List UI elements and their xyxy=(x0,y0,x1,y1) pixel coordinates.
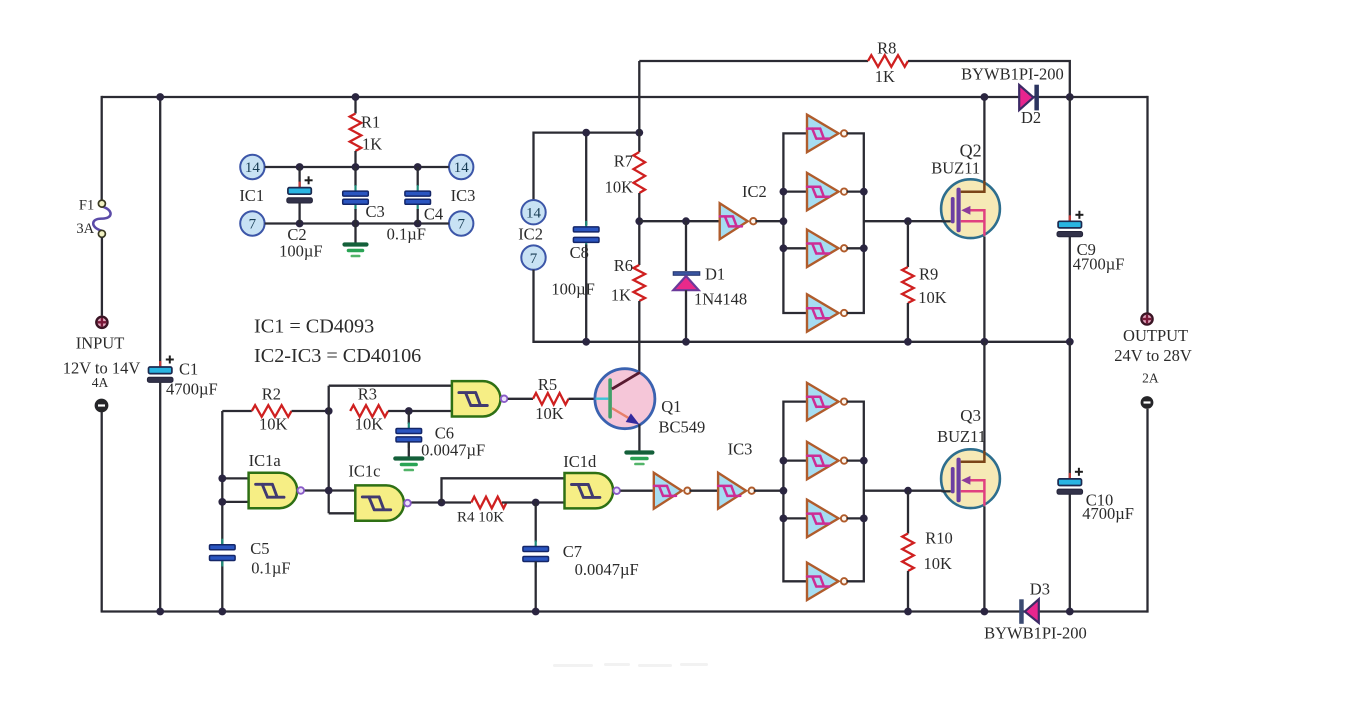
node IC2 input rail 2 xyxy=(780,188,788,196)
pin 14 IC1 xyxy=(240,155,264,179)
node C9 top rail xyxy=(1066,93,1074,101)
wire ground stem under C3 xyxy=(354,224,356,244)
wire pin14 IC2 riser xyxy=(534,133,640,200)
svg-text:2A: 2A xyxy=(1142,371,1159,386)
terminal INPUT plus xyxy=(96,317,107,328)
wire R2 left lead xyxy=(222,410,252,412)
pin 7 IC2 xyxy=(521,245,545,269)
op-amp IC2 bank inverter 4 xyxy=(807,294,839,331)
svg-text:OUTPUT: OUTPUT xyxy=(1123,326,1188,345)
wire IC3 bank to Q3 gate xyxy=(864,490,943,492)
svg-text:1N4148: 1N4148 xyxy=(694,289,747,308)
node IC3 output rail 3 xyxy=(860,515,868,523)
svg-text:INPUT: INPUT xyxy=(76,333,125,352)
wire R2 right lead xyxy=(292,410,329,412)
wire IC2 bank output stub 2 xyxy=(847,190,864,192)
wire IC1a input stub lower xyxy=(222,501,248,503)
svg-text:10K: 10K xyxy=(918,288,947,307)
node C4 bottom xyxy=(414,220,422,228)
wire IC3 bank output rail xyxy=(847,402,864,582)
node C3 bottom xyxy=(352,220,360,228)
wire R3 right lead xyxy=(388,410,452,412)
svg-text:R6: R6 xyxy=(614,256,633,275)
op-amp IC3 bank inverter 3 xyxy=(807,500,839,537)
node Q2 source mid rail xyxy=(981,338,989,346)
svg-text:C3: C3 xyxy=(366,202,385,221)
wire IC1c lower input corner xyxy=(329,512,356,514)
op-amp IC3 driver inverter A xyxy=(654,473,682,509)
node IC2 input rail 3 xyxy=(780,244,788,252)
svg-text:IC2: IC2 xyxy=(518,225,543,244)
wire C2 top lead xyxy=(298,167,300,188)
svg-text:3A: 3A xyxy=(76,221,94,237)
wire R4 right lead xyxy=(502,501,565,503)
svg-text:IC3: IC3 xyxy=(728,440,753,459)
pin 14 IC3 xyxy=(449,155,473,179)
ground under C3 xyxy=(345,242,367,246)
wire C6 bottom lead xyxy=(408,442,410,457)
svg-text:1K: 1K xyxy=(611,285,631,304)
capacitor C8 xyxy=(585,221,587,228)
wire Q2 drain to rail xyxy=(983,97,985,181)
wire IC1c output xyxy=(412,501,472,503)
wire Q2 source to mid rail xyxy=(983,236,985,341)
svg-text:IC1a: IC1a xyxy=(249,451,282,470)
wire oscillator left vertical xyxy=(221,411,223,545)
svg-text:C8: C8 xyxy=(570,243,589,262)
node IC1c output junction xyxy=(438,499,446,507)
wire R8 right lead xyxy=(908,61,1070,97)
wire left rail upper segment xyxy=(101,96,103,200)
node IC3 output rail 2 xyxy=(860,457,868,465)
wire feedback to IC1d xyxy=(442,478,565,502)
node R9 top xyxy=(904,217,912,225)
svg-text:IC3: IC3 xyxy=(451,186,476,205)
svg-text:4700µF: 4700µF xyxy=(1073,254,1125,273)
wire Q1 emitter to ground xyxy=(638,424,640,450)
svg-text:0.1µF: 0.1µF xyxy=(251,559,290,578)
wire C4 bottom lead xyxy=(417,209,419,224)
svg-text:C1: C1 xyxy=(179,360,198,379)
capacitor C2 xyxy=(299,182,301,188)
wire output minus to bottom rail xyxy=(1146,409,1148,613)
wire C3 bottom lead xyxy=(354,209,356,224)
op-amp IC3 bank inverter 1 xyxy=(807,383,839,420)
op-amp IC2 driver inverter xyxy=(720,203,748,239)
resistor R4 xyxy=(471,497,506,509)
svg-text:R10: R10 xyxy=(925,528,953,547)
capacitor C6 xyxy=(408,423,410,430)
svg-text:D2: D2 xyxy=(1021,108,1041,127)
wire top supply rail xyxy=(102,96,1148,98)
svg-text:4700µF: 4700µF xyxy=(166,379,218,398)
wire R9 upper lead xyxy=(907,221,909,267)
node IC3 input rail 3 xyxy=(780,515,788,523)
node IC1a upper input xyxy=(218,475,226,483)
wire bottom ground rail xyxy=(101,610,1148,612)
nand gate IC1c xyxy=(355,485,404,520)
capacitor C5 xyxy=(221,539,223,546)
wire C9 bottom lead xyxy=(1069,237,1071,342)
resistor R6 xyxy=(634,265,646,301)
svg-text:R5: R5 xyxy=(538,375,557,394)
svg-text:0.0047µF: 0.0047µF xyxy=(421,440,485,459)
svg-text:R9: R9 xyxy=(919,265,938,284)
pin 7 IC1 xyxy=(240,211,264,235)
svg-text:1K: 1K xyxy=(875,67,895,86)
wire C10 bottom lead xyxy=(1069,495,1071,612)
svg-text:C5: C5 xyxy=(250,539,269,558)
wire between IC3 drivers xyxy=(689,490,718,492)
svg-text:1K: 1K xyxy=(362,134,382,153)
node D1 bottom xyxy=(682,338,690,346)
wire pin14 line xyxy=(265,166,449,168)
svg-text:R1: R1 xyxy=(361,113,380,132)
transistor Q3 xyxy=(941,449,1000,508)
wire C8 top lead xyxy=(585,133,587,225)
resistor R7 xyxy=(634,152,646,193)
resistor R5 xyxy=(533,393,569,405)
svg-text:100µF: 100µF xyxy=(279,242,322,261)
node C4 top xyxy=(414,163,422,171)
wire R5 left lead xyxy=(508,398,533,400)
wire C8 bottom lead xyxy=(585,245,587,342)
wire C2 bottom lead xyxy=(298,203,300,224)
node D1 top xyxy=(682,217,690,225)
transistor Q1 xyxy=(595,369,655,429)
wire fuse to input plus terminal xyxy=(101,237,103,315)
wire IC1b upper input xyxy=(329,385,452,387)
resistor R9 xyxy=(902,267,914,303)
wire IC1d output xyxy=(620,490,653,492)
capacitor C3 xyxy=(354,185,356,192)
capacitor C10 xyxy=(1069,473,1071,479)
op-amp IC2 bank inverter 3 xyxy=(807,230,839,267)
svg-text:R4 10K: R4 10K xyxy=(457,510,504,526)
wire C3 top lead xyxy=(354,167,356,186)
fuse F1 xyxy=(93,207,110,231)
svg-text:D3: D3 xyxy=(1030,579,1050,598)
diode D1 xyxy=(673,272,700,276)
wire Q3 drain to mid rail xyxy=(983,342,985,451)
svg-text:IC1d: IC1d xyxy=(563,452,597,471)
svg-text:R3: R3 xyxy=(358,385,377,404)
wire IC3 bank input rail xyxy=(783,402,807,582)
svg-text:BYWB1PI-200: BYWB1PI-200 xyxy=(984,624,1087,643)
svg-text:R7: R7 xyxy=(614,152,633,171)
wire IC1a output xyxy=(305,489,356,491)
resistor R8 xyxy=(868,55,908,67)
wire C7 top lead xyxy=(535,503,537,543)
node IC2 output rail 3 xyxy=(860,244,868,252)
ground under Q1 xyxy=(626,450,652,454)
svg-text:10K: 10K xyxy=(924,554,953,573)
wire C6 top lead xyxy=(408,411,410,424)
diode D3 xyxy=(1019,599,1024,624)
node C1 top rail xyxy=(156,93,164,101)
svg-text:0.1µF: 0.1µF xyxy=(387,224,426,243)
wire R10 upper lead xyxy=(907,491,909,534)
nand gate IC1d xyxy=(565,473,614,508)
svg-text:7: 7 xyxy=(249,217,257,233)
terminal OUTPUT plus xyxy=(1141,313,1152,324)
wire pin7 IC2 drop xyxy=(534,270,1070,342)
svg-text:C4: C4 xyxy=(424,205,443,224)
node C2 top xyxy=(296,163,304,171)
pin 14 IC2 xyxy=(521,200,545,224)
wire right rail upper segment xyxy=(1146,96,1148,313)
svg-text:D1: D1 xyxy=(705,264,725,283)
wire R6 to Q1 collector xyxy=(638,301,640,372)
node R2 R3 junction xyxy=(325,407,333,415)
svg-text:BYWB1PI-200: BYWB1PI-200 xyxy=(961,65,1064,84)
wire IC1a input stub upper xyxy=(222,477,248,479)
wire C7 bottom lead xyxy=(535,562,537,612)
terminal OUTPUT minus xyxy=(1141,396,1154,409)
wire IC3 driver out to bank xyxy=(754,490,784,492)
svg-text:7: 7 xyxy=(457,217,465,233)
wire IC3 bank output stub 2 xyxy=(847,459,864,461)
wire IC3 bank input stub 3 xyxy=(783,517,807,519)
svg-text:10K: 10K xyxy=(355,415,384,434)
wire R5 right lead xyxy=(569,398,597,400)
wire mid rail to C10 xyxy=(1069,342,1071,479)
op-amp IC3 driver inverter B xyxy=(718,473,746,509)
wire driver out to bank input rail xyxy=(755,220,783,222)
capacitor C4 xyxy=(417,185,419,192)
node C8 top xyxy=(582,129,590,137)
node C1 bottom rail xyxy=(156,608,164,616)
node mid rail right end xyxy=(1066,338,1074,346)
node R1 top rail xyxy=(352,93,360,101)
node R10 bottom rail xyxy=(904,608,912,616)
svg-text:IC1c: IC1c xyxy=(348,462,380,481)
op-amp IC2 bank inverter 1 xyxy=(807,115,839,152)
svg-text:F1: F1 xyxy=(79,198,94,214)
wire IC2 bank input stub 3 xyxy=(783,247,807,249)
wire IC2 bank output rail xyxy=(847,133,864,313)
node IC3 input rail 2 xyxy=(780,457,788,465)
wire IC3 bank output stub 3 xyxy=(847,517,864,519)
node R10 top xyxy=(904,487,912,495)
wire IC2 bank input rail xyxy=(783,133,807,313)
svg-text:BC549: BC549 xyxy=(659,418,706,437)
node C5 bottom rail xyxy=(218,608,226,616)
wire IC3 bank input stub 2 xyxy=(783,459,807,461)
svg-text:10K: 10K xyxy=(535,404,564,423)
node C7 top xyxy=(532,499,540,507)
node Q3 source bottom rail xyxy=(981,608,989,616)
svg-text:R8: R8 xyxy=(877,39,896,58)
wire R7 to R6 xyxy=(638,193,640,265)
svg-text:C7: C7 xyxy=(563,542,582,561)
wire R1 top lead xyxy=(354,97,356,114)
node IC2 output rail 2 xyxy=(860,188,868,196)
wire IC2 bank to Q2 gate xyxy=(864,220,943,222)
wire R7 upper lead xyxy=(638,133,640,152)
svg-text:Q3: Q3 xyxy=(960,406,981,425)
wire IC2 bank output stub 3 xyxy=(847,247,864,249)
wire D1 upper lead xyxy=(685,221,687,271)
capacitor C1 xyxy=(159,361,161,367)
op-amp IC2 bank inverter 2 xyxy=(807,173,839,210)
node C10 bottom rail xyxy=(1066,608,1074,616)
wire C1 top lead xyxy=(159,97,161,367)
resistor R10 xyxy=(902,534,914,572)
capacitor C9 xyxy=(1069,215,1071,221)
svg-text:14: 14 xyxy=(454,160,470,176)
svg-text:BUZ11: BUZ11 xyxy=(931,159,980,178)
svg-text:IC1: IC1 xyxy=(239,186,264,205)
faint ghost mark xyxy=(553,663,708,667)
wire R9 lower lead xyxy=(907,303,909,342)
node C8 bottom xyxy=(582,338,590,346)
terminal INPUT minus xyxy=(95,399,108,412)
resistor R1 xyxy=(350,114,362,152)
wire input minus to bottom rail xyxy=(101,412,103,612)
wire C4 top lead xyxy=(417,167,419,186)
resistor R2 xyxy=(252,405,292,417)
wire R8 left riser xyxy=(638,61,640,133)
wire C9 top lead xyxy=(1069,97,1071,221)
pin 7 IC3 xyxy=(449,211,473,235)
nand gate IC1a xyxy=(249,473,298,508)
svg-text:IC1 = CD4093: IC1 = CD4093 xyxy=(254,315,374,337)
transistor Q2 xyxy=(941,179,1000,238)
node C7 bottom rail xyxy=(532,608,540,616)
node C6 top xyxy=(405,407,413,415)
node IC1a lower input xyxy=(218,498,226,506)
wire Q3 source to bottom rail xyxy=(983,506,985,611)
wire C5 bottom lead xyxy=(221,560,223,611)
wire IC2 bank input stub 2 xyxy=(783,190,807,192)
wire R8 left lead xyxy=(639,60,868,62)
node IC2 input rail mid xyxy=(780,217,788,225)
svg-text:Q2: Q2 xyxy=(960,140,982,160)
svg-text:100µF: 100µF xyxy=(551,279,594,298)
node IC1a output junction xyxy=(325,487,333,495)
capacitor C7 xyxy=(535,541,537,548)
svg-text:IC2-IC3 = CD40106: IC2-IC3 = CD40106 xyxy=(254,345,421,367)
ground under C6 xyxy=(395,456,422,460)
svg-text:4700µF: 4700µF xyxy=(1082,504,1134,523)
svg-text:4A: 4A xyxy=(92,375,109,390)
op-amp IC3 bank inverter 2 xyxy=(807,442,839,479)
wire R1 bottom lead xyxy=(354,151,356,167)
nand gate IC1b xyxy=(452,381,501,416)
svg-text:0.0047µF: 0.0047µF xyxy=(575,560,639,579)
svg-text:7: 7 xyxy=(530,251,538,267)
wire C1 bottom lead xyxy=(159,383,161,612)
svg-text:14: 14 xyxy=(245,160,261,176)
svg-text:BUZ11: BUZ11 xyxy=(937,427,986,446)
diode D2 xyxy=(1019,85,1033,110)
resistor R3 xyxy=(350,405,388,417)
node Q2 drain rail xyxy=(981,93,989,101)
node C2 bottom xyxy=(296,220,304,228)
svg-text:24V to 28V: 24V to 28V xyxy=(1114,346,1192,365)
svg-text:14: 14 xyxy=(526,205,542,221)
wire pin7 line xyxy=(265,222,449,224)
svg-text:R2: R2 xyxy=(262,385,281,404)
node R7 top line xyxy=(635,129,643,137)
op-amp IC3 bank inverter 4 xyxy=(807,563,839,600)
svg-text:10K: 10K xyxy=(259,415,288,434)
wire timing node to D1 and inverter xyxy=(639,220,719,222)
node R9 bottom xyxy=(904,338,912,346)
wire D1 lower lead xyxy=(685,290,687,342)
svg-text:Q1: Q1 xyxy=(661,397,681,416)
node IC3 input rail mid xyxy=(780,487,788,495)
node C3 top xyxy=(352,163,360,171)
svg-text:10K: 10K xyxy=(605,178,634,197)
wire feedback vertical xyxy=(328,386,330,514)
wire R10 lower lead xyxy=(907,571,909,612)
node timing junction xyxy=(635,217,643,225)
svg-text:IC2: IC2 xyxy=(742,182,767,201)
